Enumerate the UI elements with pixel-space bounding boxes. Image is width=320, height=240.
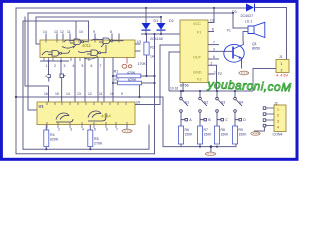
wire C2 drop bbox=[60, 61, 62, 74]
wire D2 anode up bbox=[160, 17, 162, 23]
wire top pin stub x63 bbox=[62, 34, 64, 40]
wire U3 pin10 stub to bus bbox=[182, 83, 184, 92]
node junction x61 bbox=[60, 60, 62, 62]
svg-text:14: 14 bbox=[66, 92, 70, 96]
gate U2B bbox=[103, 38, 113, 44]
svg-text:Q1: Q1 bbox=[252, 42, 257, 46]
gate U1A shape bbox=[56, 113, 73, 122]
gate U2A bbox=[74, 39, 84, 45]
svg-text:4. 4.5V: 4. 4.5V bbox=[276, 74, 288, 78]
wire R3 top bbox=[146, 34, 148, 42]
wire U1 pin stubs bbox=[47, 102, 127, 128]
wire top pin stub x95 bbox=[94, 34, 96, 40]
wire top nest y13 bbox=[28, 12, 233, 14]
pad J2 pin3 bbox=[263, 119, 266, 122]
svg-text:6: 6 bbox=[213, 55, 215, 59]
wire U2 inner pin stubs bbox=[44, 40, 119, 61]
wire x113 down bbox=[112, 58, 114, 103]
svg-text:F2: F2 bbox=[197, 78, 201, 82]
wire R5 top bbox=[89, 125, 91, 130]
wire x76 top pin drop bbox=[75, 21, 77, 40]
svg-text:12: 12 bbox=[88, 92, 92, 96]
svg-text:1: 1 bbox=[277, 108, 279, 112]
svg-text:470K: 470K bbox=[127, 71, 136, 75]
pad J2 pin1 bbox=[263, 107, 266, 110]
wire R1 left bbox=[113, 75, 117, 77]
wire J2 pin2 stub bbox=[266, 113, 274, 115]
svg-text:VCC: VCC bbox=[193, 22, 201, 26]
svg-text:S1: S1 bbox=[185, 100, 189, 104]
node junction x214 y8 bbox=[213, 7, 215, 9]
wire J2 pads chain to ground bbox=[254, 127, 265, 132]
svg-text:6: 6 bbox=[106, 128, 108, 132]
wire pin stub y44.6 bbox=[208, 44, 219, 46]
svg-text:R6: R6 bbox=[185, 128, 189, 132]
wire R5 bottom bbox=[89, 147, 91, 150]
wire bottom bus y149.2 bbox=[23, 125, 149, 149]
wire switch bus y91 bbox=[169, 90, 253, 92]
node junction x48.5 bbox=[48, 60, 50, 62]
ground under Q1 bbox=[239, 71, 249, 75]
wire resistor bottom bus bbox=[181, 144, 236, 147]
wire GND pin down bbox=[208, 65, 217, 91]
resistor R3 bbox=[144, 42, 149, 55]
svg-text:9: 9 bbox=[93, 30, 95, 34]
IC U3 BT66 block bbox=[180, 20, 208, 83]
wire y86 above block2 bbox=[25, 86, 49, 102]
svg-text:10 16: 10 16 bbox=[170, 87, 178, 91]
wire top pin stub x112 bbox=[111, 34, 113, 40]
svg-text:1: 1 bbox=[281, 62, 283, 66]
svg-text:F1: F1 bbox=[227, 29, 231, 33]
svg-text:R9: R9 bbox=[239, 128, 243, 132]
capacitor C2 bbox=[60, 74, 65, 102]
svg-text:7: 7 bbox=[213, 41, 215, 45]
switch S4 bbox=[234, 90, 242, 126]
svg-text:R4: R4 bbox=[50, 133, 55, 137]
wire Q1 emitter down bbox=[241, 62, 243, 69]
resistor R9 bbox=[233, 126, 238, 144]
capacitor C1 bbox=[45, 75, 50, 82]
svg-text:5: 5 bbox=[82, 64, 84, 68]
svg-text:1: 1 bbox=[214, 70, 216, 74]
resistor R6 bbox=[179, 126, 184, 144]
svg-text:16: 16 bbox=[44, 92, 48, 96]
wire speaker top bbox=[233, 13, 248, 28]
svg-text:3: 3 bbox=[70, 128, 72, 132]
wire F1 pin stub bbox=[208, 31, 214, 33]
svg-text:S3: S3 bbox=[221, 100, 225, 104]
svg-text:LS 1: LS 1 bbox=[245, 20, 252, 24]
svg-text:3: 3 bbox=[277, 120, 279, 124]
svg-text:2: 2 bbox=[211, 61, 213, 65]
resistor R4 bbox=[44, 130, 49, 147]
svg-text:8: 8 bbox=[212, 28, 214, 32]
svg-text:1: 1 bbox=[46, 64, 48, 68]
svg-text:GND: GND bbox=[193, 71, 202, 75]
svg-text:4: 4 bbox=[82, 128, 84, 132]
svg-text:12: 12 bbox=[60, 30, 64, 34]
svg-text:2: 2 bbox=[54, 64, 56, 68]
wire x88.5 top pin drop bbox=[88, 21, 90, 40]
pad J2 pin4 bbox=[263, 124, 266, 127]
svg-text:13: 13 bbox=[54, 30, 58, 34]
svg-text:150K: 150K bbox=[204, 133, 213, 137]
wire left vertical x16 bbox=[15, 8, 17, 154]
svg-text:F1: F1 bbox=[197, 31, 201, 35]
wire U2 right stub y44 bbox=[135, 43, 141, 45]
wire left vertical x25 bbox=[24, 17, 26, 86]
svg-text:U9: U9 bbox=[136, 101, 140, 105]
svg-text:2C4148: 2C4148 bbox=[150, 37, 163, 41]
wire U2 right stub y51 bbox=[135, 50, 141, 52]
svg-text:4: 4 bbox=[73, 64, 75, 68]
wire U1 output to U3 pin bbox=[135, 45, 180, 105]
svg-text:620K: 620K bbox=[128, 78, 137, 82]
svg-text:CON4: CON4 bbox=[273, 133, 283, 137]
wire J2 pin4 stub bbox=[266, 125, 274, 127]
wire pin stub y59 bbox=[208, 58, 219, 60]
svg-text:2: 2 bbox=[281, 69, 283, 73]
wire C1 drop bbox=[48, 61, 50, 75]
svg-text:14: 14 bbox=[43, 30, 47, 34]
pad J2 pin2 bbox=[263, 113, 266, 116]
svg-text:D: D bbox=[243, 118, 246, 122]
ground scribble near U1 pin8 bbox=[122, 125, 132, 133]
wire x36 into block1 bbox=[36, 17, 40, 44]
svg-text:2: 2 bbox=[58, 128, 60, 132]
wire top nest y21 bbox=[23, 20, 89, 22]
IC U1 4044 block bbox=[37, 102, 135, 125]
svg-text:13: 13 bbox=[77, 92, 81, 96]
wire J2 pin3 stub bbox=[266, 119, 274, 121]
wire D2 cathode down bbox=[160, 30, 162, 34]
wire U2 pin6 to U1 x85 bbox=[84, 58, 86, 103]
svg-text:J1: J1 bbox=[279, 55, 283, 59]
svg-text:150K: 150K bbox=[221, 133, 230, 137]
wire R2 right bbox=[142, 82, 155, 84]
svg-text:8050: 8050 bbox=[252, 47, 260, 51]
wire U3 left pin to bus x169 bbox=[169, 52, 180, 91]
svg-text:7: 7 bbox=[100, 64, 102, 68]
svg-text:270K: 270K bbox=[94, 142, 103, 146]
resistor R7 bbox=[198, 126, 203, 144]
wire top pin stub x119 bbox=[118, 34, 120, 40]
transistor Q1 bbox=[224, 42, 244, 63]
svg-text:R5: R5 bbox=[94, 137, 99, 141]
svg-text:7: 7 bbox=[116, 128, 118, 132]
wire U2 pin5 to U1 x75 bbox=[74, 58, 76, 103]
wire x104 down bbox=[103, 58, 105, 103]
switch S3 bbox=[216, 90, 224, 126]
wire x98 down bbox=[97, 58, 99, 103]
wire top pin stub x46 bbox=[45, 34, 47, 40]
svg-text:D1: D1 bbox=[154, 19, 159, 23]
node junction x16 y98 bbox=[15, 96, 17, 98]
svg-text:OUT: OUT bbox=[193, 56, 202, 60]
wire J2 pin1 stub bbox=[266, 107, 274, 109]
wire ground drop bbox=[210, 147, 212, 153]
wire R4 bottom bbox=[45, 147, 47, 150]
svg-text:U1: U1 bbox=[39, 104, 45, 109]
svg-text:170K: 170K bbox=[138, 62, 147, 66]
svg-text:S2: S2 bbox=[204, 100, 208, 104]
svg-text:4011: 4011 bbox=[82, 43, 92, 48]
wire top pin stub x57 bbox=[56, 34, 58, 40]
switch S2 bbox=[199, 90, 207, 126]
svg-text:BT66: BT66 bbox=[180, 84, 189, 88]
wire top pin stub x70 bbox=[69, 34, 71, 40]
svg-text:3: 3 bbox=[213, 47, 215, 51]
svg-text:620K: 620K bbox=[50, 138, 59, 142]
svg-text:15: 15 bbox=[55, 92, 59, 96]
gate wire squiggles bbox=[62, 44, 104, 60]
wire J1 pin2 stub to bus bbox=[253, 69, 276, 92]
wire D1 anode up bbox=[145, 8, 147, 23]
node junction x233 y13 bbox=[232, 12, 234, 14]
ground near J2 bbox=[251, 132, 260, 135]
wire R3 bottom bbox=[146, 55, 148, 76]
wire top nest y8 bbox=[16, 7, 246, 9]
wire top nest y17 bbox=[36, 16, 161, 18]
node junction R3-R1 bbox=[145, 75, 147, 77]
gate U2D bbox=[91, 50, 101, 56]
svg-text:1/2: 1/2 bbox=[210, 19, 215, 23]
wire bus y61 under U2 bbox=[40, 60, 69, 62]
svg-text:S4: S4 bbox=[239, 100, 243, 104]
resistor R5 bbox=[88, 130, 93, 147]
node junction x146 y8 bbox=[145, 7, 147, 9]
svg-text:R3: R3 bbox=[150, 46, 155, 50]
wire x163 down to resistor bus bbox=[163, 97, 181, 147]
wire R1 right bbox=[141, 75, 155, 77]
IC U2 4011 block bbox=[40, 40, 135, 58]
wire R2 left bbox=[113, 82, 118, 84]
svg-text:R1: R1 bbox=[114, 70, 119, 74]
svg-text:R8: R8 bbox=[221, 128, 225, 132]
wire OUT to Q1 base bbox=[208, 50, 233, 52]
svg-text:2C4027: 2C4027 bbox=[241, 14, 254, 18]
switch S1 bbox=[180, 90, 188, 126]
wire x139.5 R2 to y97 bbox=[139, 85, 141, 97]
wire vertical x154.5 bbox=[154, 34, 156, 154]
gate U1B shape bbox=[88, 111, 106, 121]
node junction x161 y17 bbox=[160, 16, 162, 18]
svg-text:C: C bbox=[225, 118, 228, 122]
wire diode bus y34 bbox=[141, 33, 180, 35]
wire bottom bus y153.7 bbox=[16, 153, 155, 155]
svg-text:11: 11 bbox=[67, 30, 71, 34]
resistor R8 bbox=[215, 126, 220, 144]
svg-text:5: 5 bbox=[94, 128, 96, 132]
svg-text:6: 6 bbox=[91, 64, 93, 68]
svg-text:1/3: 1/3 bbox=[137, 40, 142, 44]
border frame bbox=[1, 1, 297, 159]
svg-text:9: 9 bbox=[121, 92, 123, 96]
wire R4 top bbox=[45, 125, 47, 130]
wire D1 cathode down bbox=[145, 30, 147, 34]
svg-text:3: 3 bbox=[64, 64, 66, 68]
wire D3 cathode to right bbox=[255, 8, 287, 60]
wire left vertical x23 bbox=[22, 21, 24, 149]
wire F2 pin stub bbox=[208, 73, 215, 75]
wire left vertical x28 bbox=[28, 13, 37, 110]
watermark youbaroni.com bbox=[206, 77, 291, 94]
svg-text:10: 10 bbox=[110, 92, 114, 96]
gate U2C bbox=[52, 51, 62, 57]
svg-text:2: 2 bbox=[277, 114, 279, 118]
wire VCC pin stub bbox=[208, 8, 214, 23]
wire speaker bottom to Q1 collector bbox=[243, 32, 248, 42]
svg-text:8: 8 bbox=[110, 30, 112, 34]
svg-text:4: 4 bbox=[277, 126, 279, 130]
svg-text:F2: F2 bbox=[218, 72, 222, 76]
svg-text:150K: 150K bbox=[239, 133, 248, 137]
ground under resistors bbox=[205, 152, 215, 155]
svg-text:11: 11 bbox=[99, 92, 103, 96]
svg-text:150K: 150K bbox=[185, 133, 194, 137]
wire y97 long horizontal bbox=[16, 96, 163, 98]
svg-text:D2: D2 bbox=[169, 19, 174, 23]
svg-text:R7: R7 bbox=[204, 128, 208, 132]
svg-text:10: 10 bbox=[79, 30, 83, 34]
